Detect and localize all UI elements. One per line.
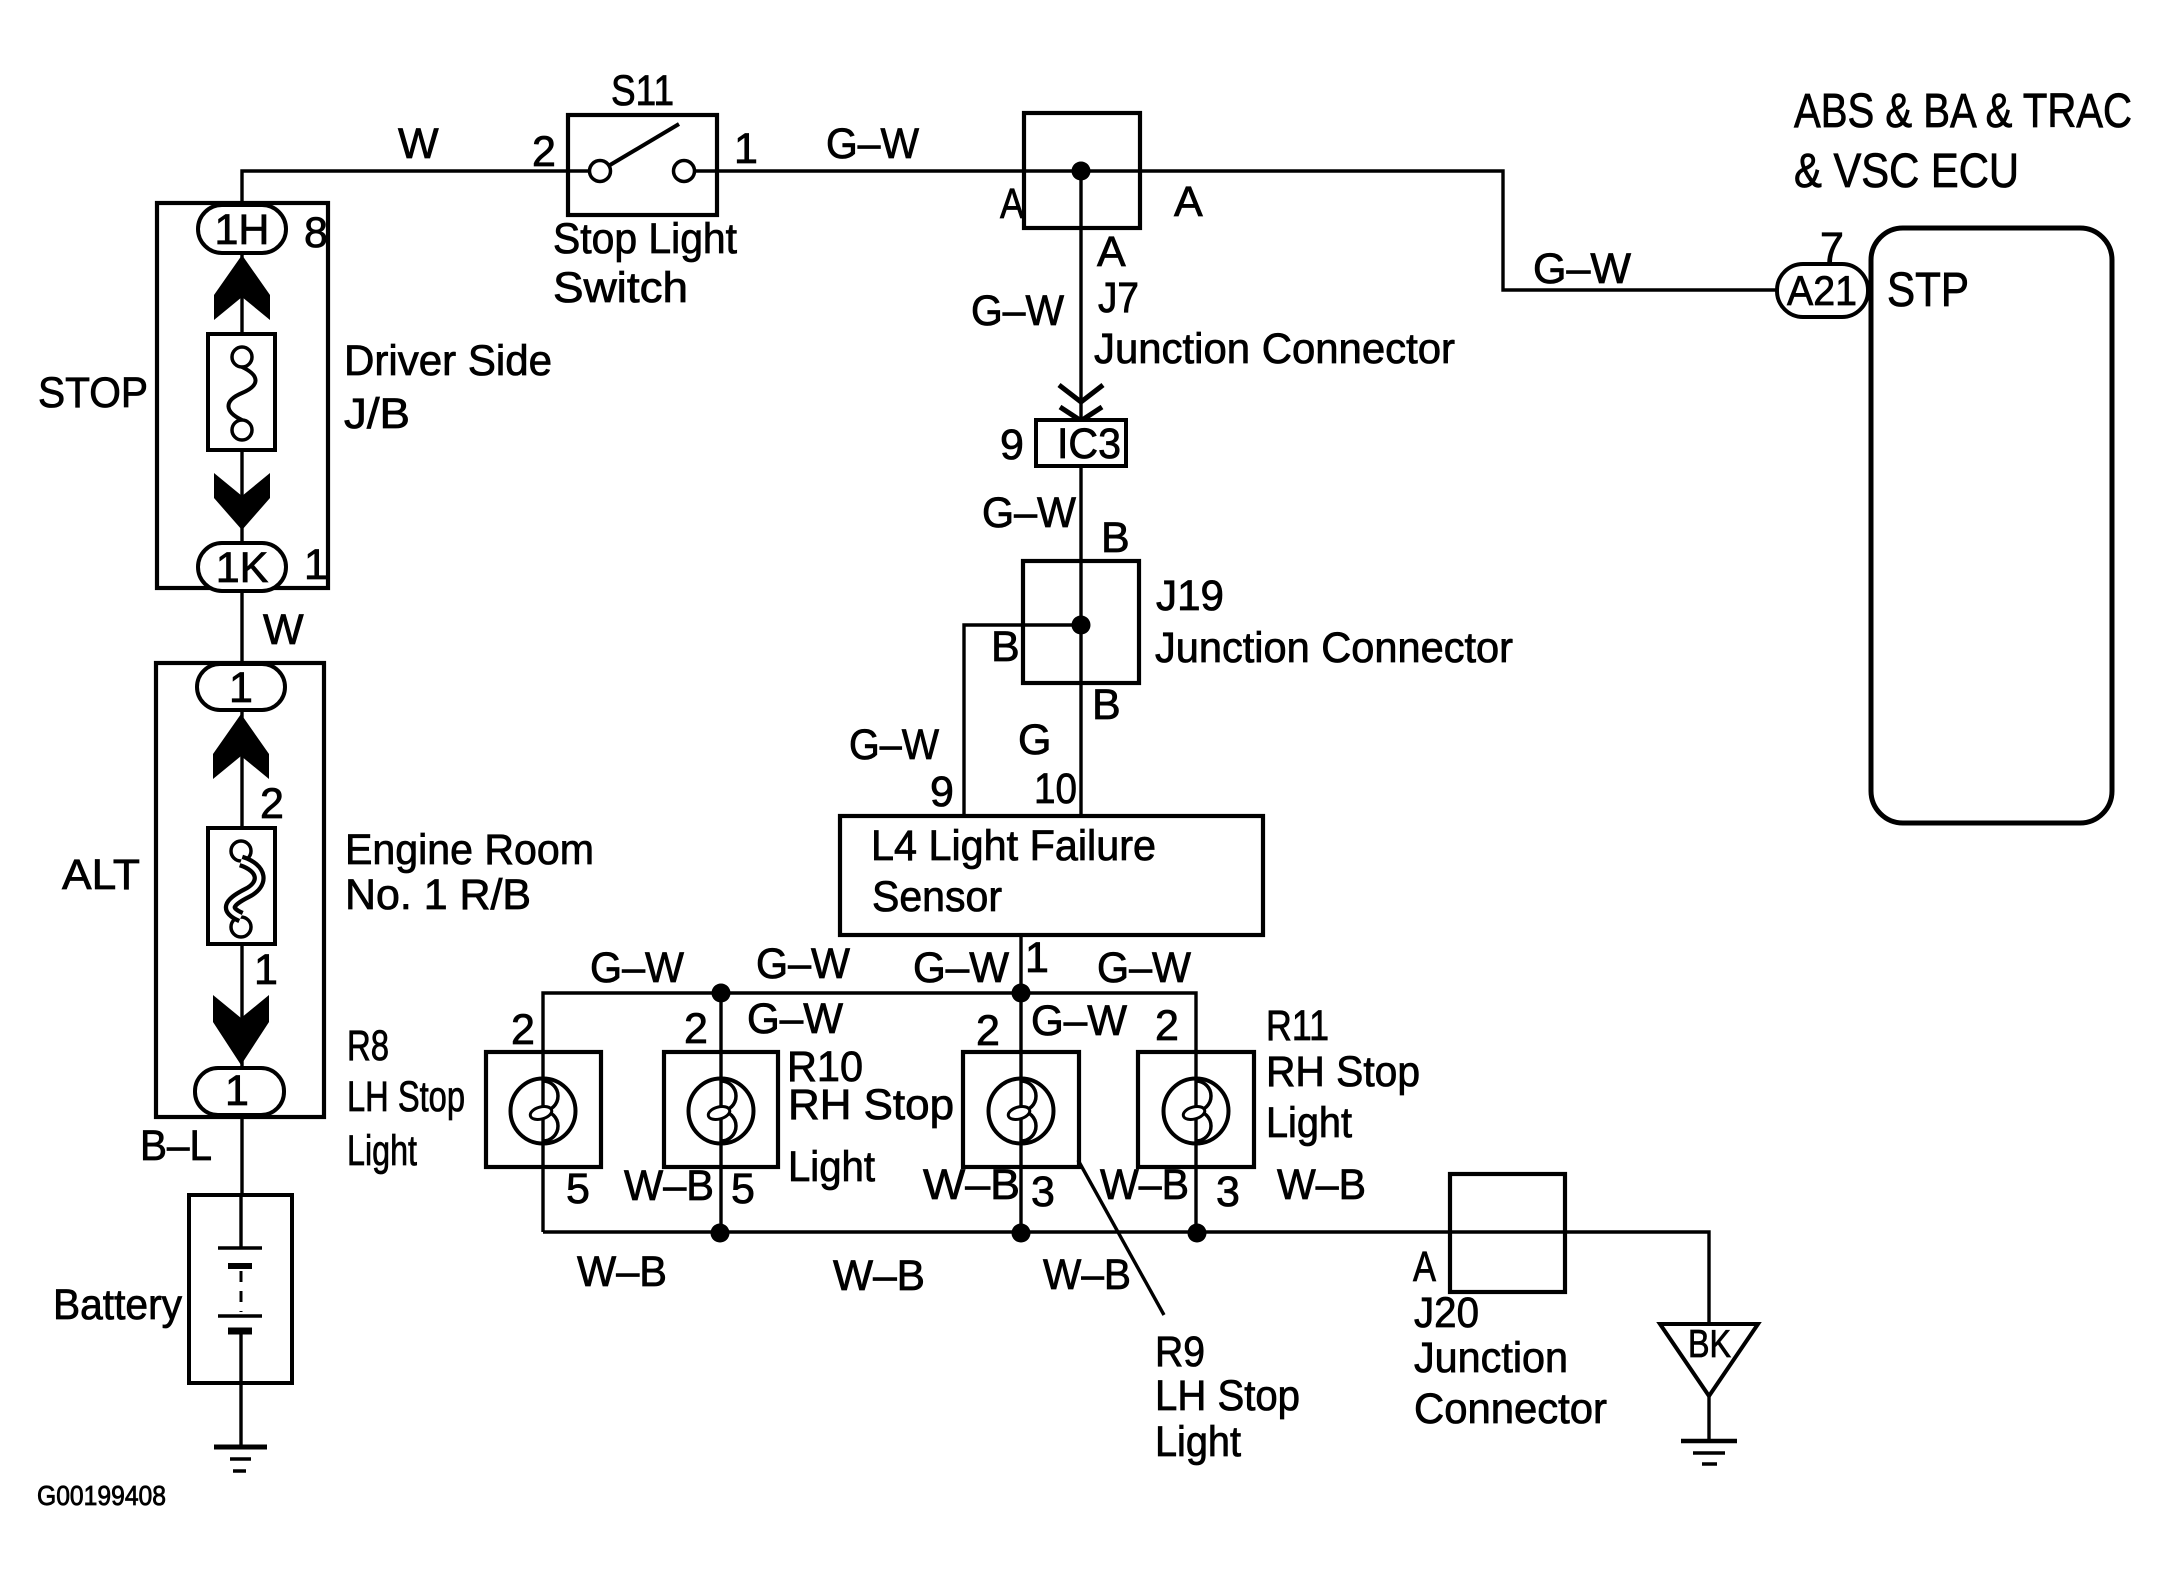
svg-text:Driver Side: Driver Side <box>344 337 552 385</box>
svg-text:J/B: J/B <box>344 390 410 438</box>
svg-text:2: 2 <box>1155 1002 1179 1050</box>
wire sensor pin 1 down to G-W bus <box>1019 935 1022 993</box>
up arrow STOP <box>214 255 270 320</box>
svg-text:G–W: G–W <box>1097 944 1191 992</box>
svg-text:W–B: W–B <box>577 1248 667 1296</box>
svg-text:G00199408: G00199408 <box>37 1480 166 1511</box>
svg-text:Junction Connector: Junction Connector <box>1155 624 1513 672</box>
svg-text:9: 9 <box>930 768 954 816</box>
svg-text:W: W <box>263 606 304 654</box>
svg-text:8: 8 <box>304 209 328 257</box>
svg-text:W–B: W–B <box>624 1162 714 1210</box>
L4 light failure sensor box <box>840 816 1263 935</box>
junction dot bottom-R10 <box>711 1224 730 1243</box>
ground triangle BK <box>1660 1324 1758 1396</box>
svg-text:R8: R8 <box>347 1022 389 1070</box>
switch blade <box>610 124 679 165</box>
svg-text:IC3: IC3 <box>1057 420 1121 468</box>
leader line from R9 bulb to label <box>1078 1160 1164 1315</box>
junction dot J7 <box>1072 162 1091 181</box>
wire bulb branch R10 <box>719 993 722 1052</box>
fusible link ALT <box>208 828 275 944</box>
wire W from Driver Side J/B 1H up and right to stop light switch <box>242 171 590 1195</box>
svg-text:R11: R11 <box>1266 1002 1329 1050</box>
svg-text:A: A <box>1413 1243 1436 1291</box>
svg-text:1: 1 <box>225 1067 249 1115</box>
svg-text:RH Stop: RH Stop <box>788 1081 954 1129</box>
down arrow ALT <box>213 995 269 1065</box>
svg-text:B–L: B–L <box>140 1122 212 1170</box>
connector oval 1 bottom <box>195 1068 284 1115</box>
svg-text:BK: BK <box>1688 1323 1731 1366</box>
svg-text:W–B: W–B <box>1277 1161 1366 1209</box>
svg-text:3: 3 <box>1031 1168 1055 1216</box>
ABS & BA & TRAC & VSC ECU box <box>1871 228 2112 823</box>
wire G-W vertical from J7 down through IC3 to J19 and sensor pin 10 <box>1079 171 1082 816</box>
svg-text:RH Stop: RH Stop <box>1266 1048 1420 1096</box>
svg-text:W–B: W–B <box>1043 1251 1131 1299</box>
switch terminal circles <box>590 161 611 182</box>
svg-text:G–W: G–W <box>971 287 1064 335</box>
junction dot bus-R10 <box>712 984 731 1003</box>
svg-text:G–W: G–W <box>1533 245 1631 293</box>
svg-text:A: A <box>1174 178 1203 226</box>
svg-text:G–W: G–W <box>849 721 939 769</box>
svg-text:J7: J7 <box>1098 274 1139 322</box>
svg-text:9: 9 <box>1000 421 1024 469</box>
connector oval 1H <box>198 205 286 253</box>
svg-text:G–W: G–W <box>1031 997 1127 1045</box>
stop light R10 box <box>664 1052 778 1167</box>
svg-text:2: 2 <box>260 780 284 828</box>
svg-text:W–B: W–B <box>923 1161 1020 1209</box>
svg-text:Stop Light: Stop Light <box>553 215 737 263</box>
wire W-B bottom bus to J20 and to ground <box>543 1232 1709 1324</box>
svg-text:B: B <box>991 623 1020 671</box>
fuse STOP <box>208 334 275 450</box>
svg-text:2: 2 <box>532 128 556 176</box>
connector oval 1K <box>198 543 286 591</box>
junction connector J20 box <box>1450 1174 1565 1292</box>
wire G-W bus above stop lights <box>543 993 1196 1052</box>
svg-text:G–W: G–W <box>982 489 1076 537</box>
junction dot bottom-R9 <box>1012 1224 1031 1243</box>
svg-text:3: 3 <box>1216 1168 1240 1216</box>
junction connector J19 box <box>1023 561 1139 683</box>
svg-text:5: 5 <box>731 1165 755 1213</box>
svg-text:& VSC ECU: & VSC ECU <box>1794 145 2019 198</box>
svg-text:1: 1 <box>1025 934 1049 982</box>
svg-text:W–B: W–B <box>833 1252 925 1300</box>
svg-text:STP: STP <box>1887 264 1969 317</box>
svg-text:5: 5 <box>566 1165 590 1213</box>
svg-text:Battery: Battery <box>53 1281 182 1329</box>
svg-text:2: 2 <box>976 1007 1000 1055</box>
stop light R11 box <box>1138 1052 1254 1167</box>
svg-text:2: 2 <box>684 1005 708 1053</box>
svg-text:1: 1 <box>254 946 278 994</box>
svg-text:B: B <box>1101 514 1130 562</box>
svg-text:STOP: STOP <box>38 369 148 417</box>
svg-text:Light: Light <box>1266 1099 1352 1147</box>
svg-text:1H: 1H <box>215 206 270 254</box>
svg-text:L4 Light Failure: L4 Light Failure <box>871 822 1156 870</box>
wire G-W from switch pin 1 to corner, down, to A21 <box>694 171 1777 290</box>
svg-text:Light: Light <box>347 1127 417 1175</box>
connector oval 1 top <box>197 664 285 710</box>
battery box <box>189 1195 292 1383</box>
svg-text:G–W: G–W <box>913 944 1009 992</box>
svg-text:Junction: Junction <box>1414 1334 1568 1382</box>
wire verticals through stop light bulbs <box>541 1052 544 1232</box>
svg-text:G–W: G–W <box>756 940 850 988</box>
svg-text:Light: Light <box>788 1143 875 1191</box>
Driver Side J/B box <box>157 203 328 588</box>
wire G-W branch from J19 left to sensor pin 9 <box>964 625 1081 816</box>
svg-text:R9: R9 <box>1155 1328 1205 1376</box>
svg-text:1: 1 <box>304 541 328 589</box>
svg-text:Junction Connector: Junction Connector <box>1094 325 1455 373</box>
svg-text:A: A <box>1097 228 1126 276</box>
stop light R9 box <box>963 1052 1079 1167</box>
svg-text:Connector: Connector <box>1414 1385 1607 1433</box>
svg-text:Engine Room: Engine Room <box>345 826 594 874</box>
up arrow ALT <box>213 714 269 779</box>
svg-text:G–W: G–W <box>590 944 684 992</box>
svg-text:G: G <box>1018 716 1051 764</box>
Engine Room No.1 R/B box <box>156 663 324 1117</box>
svg-text:No. 1 R/B: No. 1 R/B <box>345 871 531 919</box>
connector IC3 box <box>1036 420 1126 466</box>
down arrow STOP <box>214 473 270 530</box>
svg-text:ALT: ALT <box>62 851 140 899</box>
connector A21 oval <box>1777 264 1868 317</box>
svg-text:2: 2 <box>511 1006 535 1054</box>
svg-text:Sensor: Sensor <box>872 873 1002 921</box>
svg-text:B: B <box>1092 681 1121 729</box>
wire bulb branch R9 <box>1019 993 1022 1052</box>
svg-text:J20: J20 <box>1414 1289 1479 1337</box>
svg-text:ABS & BA & TRAC: ABS & BA & TRAC <box>1794 85 2132 138</box>
svg-text:Light: Light <box>1155 1418 1241 1466</box>
svg-text:A21: A21 <box>1787 267 1857 314</box>
junction dot J19 <box>1072 616 1091 635</box>
svg-text:W–B: W–B <box>1100 1161 1189 1209</box>
battery internals <box>239 1195 242 1248</box>
svg-text:J19: J19 <box>1156 572 1224 620</box>
ground battery <box>214 1445 267 1450</box>
svg-text:A: A <box>1000 180 1024 228</box>
svg-text:LH Stop: LH Stop <box>1155 1372 1300 1420</box>
stop light R8 box <box>486 1052 601 1167</box>
svg-text:G–W: G–W <box>826 120 919 168</box>
junction connector J7 box <box>1024 113 1140 228</box>
stop light switch S11 box <box>568 115 717 215</box>
svg-text:Switch: Switch <box>553 264 688 312</box>
svg-text:LH Stop: LH Stop <box>347 1073 465 1121</box>
svg-text:S11: S11 <box>611 67 674 115</box>
svg-text:7: 7 <box>1820 224 1844 272</box>
svg-text:G–W: G–W <box>747 995 843 1043</box>
junction dot bus-pin1 <box>1012 984 1031 1003</box>
junction dot bottom-R11 <box>1188 1224 1207 1243</box>
svg-text:1K: 1K <box>216 544 269 592</box>
svg-text:10: 10 <box>1034 765 1077 813</box>
svg-text:1: 1 <box>734 125 758 173</box>
connector chevrons above IC3 <box>1059 385 1103 402</box>
svg-text:1: 1 <box>229 664 253 712</box>
svg-text:W: W <box>398 120 439 168</box>
